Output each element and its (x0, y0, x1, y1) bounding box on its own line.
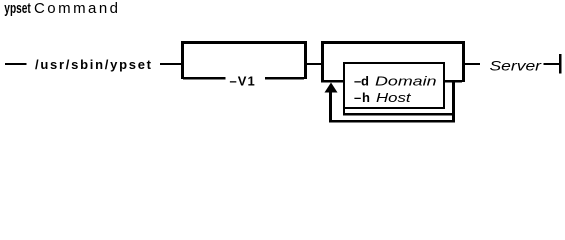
svg-text:–V1: –V1 (230, 74, 255, 89)
svg-text:–dDomain: –dDomain (354, 74, 437, 89)
loop left stem (329, 91, 332, 123)
terminal bar (559, 54, 562, 74)
svg-text:Server: Server (490, 58, 543, 74)
svg-text:/usr/sbin/ypset: /usr/sbin/ypset (35, 57, 152, 72)
repeat group: right vertical (462, 41, 465, 82)
choice-box return wire (mid) (343, 113, 455, 116)
repeat group: left vertical (321, 41, 324, 82)
optional group box (-V1): right vertical (304, 41, 307, 79)
wire: repeat group to Server (465, 63, 480, 65)
choice-box left edge extension (343, 107, 345, 115)
wire: Server to terminal (544, 63, 560, 65)
wire: V1 group to repeat group (307, 63, 321, 65)
loop bottom wire (329, 120, 455, 123)
wire: text to V1 group (160, 63, 181, 65)
start dash (5, 63, 27, 65)
stub wire right of choice box (445, 80, 462, 83)
branch wire left of -V1 (183, 77, 226, 80)
svg-text:–hHost: –hHost (354, 90, 412, 105)
optional group box (-V1): left vertical (181, 41, 184, 79)
optional group box (-V1): top rail (181, 41, 307, 44)
repeat group: top rail (321, 41, 465, 44)
svg-text:ypset: ypset (4, 0, 31, 17)
choice box (thin rectangle) (343, 62, 445, 64)
loop right vertical (452, 81, 455, 123)
stub wire left of choice box (321, 80, 343, 83)
svg-text:Command: Command (34, 0, 118, 17)
branch wire right of -V1 (265, 77, 304, 80)
loop arrowhead (up) (325, 83, 338, 93)
